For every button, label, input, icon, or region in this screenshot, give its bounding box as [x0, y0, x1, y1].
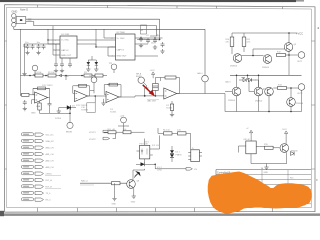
ground under C3 [36, 51, 40, 55]
junction dots bus [47, 39, 48, 40]
wire under U3A [40, 98, 77, 114]
capacitor C1 [26, 44, 30, 49]
svg-text:V+ OSC: V+ OSC [117, 38, 126, 40]
TP5 stem [113, 70, 115, 73]
diamond arrow node [59, 74, 62, 77]
connector J1 polarity dot [20, 19, 22, 21]
output connector O1 [298, 52, 305, 59]
zener DZ3 [291, 152, 295, 156]
bottom rail right section [205, 90, 302, 111]
capacitor C4 [42, 44, 46, 49]
connector J1 body [16, 17, 26, 24]
capacitor C6 under IC1 [60, 62, 64, 67]
transistor Q9 [280, 144, 289, 153]
resistor R15 horizontal [265, 146, 274, 149]
resistor R2 on distribution [48, 74, 56, 77]
regulator U8 body [246, 141, 256, 154]
Q8 emitter to ground [133, 188, 135, 194]
svg-text:U2 7660: U2 7660 [117, 32, 126, 34]
svg-text:BLWR: BLWR [136, 76, 142, 78]
ground under C1 [25, 51, 29, 55]
resistor row mid resistor RB [123, 131, 131, 134]
wire IC2 left pins [104, 29, 116, 56]
component box right of U3B [87, 103, 95, 113]
wire bus into IC area verticals [48, 26, 96, 55]
resistor R11 vertical [242, 37, 246, 47]
wire cap to main [155, 78, 160, 96]
resistor R5 under U3A [38, 103, 41, 110]
transistor Q5 [254, 87, 263, 96]
svg-text:GND: GND [31, 113, 36, 115]
zener diode DZ1 [170, 150, 174, 153]
svg-text:TL082: TL082 [166, 108, 173, 110]
diode D3 on wire [67, 105, 71, 110]
svg-text:CAP LV: CAP LV [117, 49, 125, 52]
title block column divider [262, 170, 288, 200]
ground left edge [22, 72, 26, 76]
U3A input resistor [22, 93, 30, 96]
ground under C11 [160, 49, 164, 53]
capacitor C12 under U3A [48, 102, 52, 107]
svg-text:4.7k: 4.7k [247, 42, 251, 44]
title block rows [216, 174, 311, 203]
svg-text:PMEG: PMEG [176, 155, 182, 157]
wire stub flags [113, 132, 116, 139]
input flag row 2 [22, 139, 34, 142]
input flag row 8 [22, 178, 34, 181]
power node circle +12V [121, 117, 127, 123]
op-amp U4B [164, 88, 177, 99]
svg-text:V+ OSC: V+ OSC [61, 40, 70, 42]
transistor Q3 [284, 43, 293, 52]
junction dot [69, 113, 71, 115]
input flag row 1 [22, 133, 34, 136]
svg-text:Rk 1.0k: Rk 1.0k [163, 130, 170, 132]
svg-text:VOUT1: VOUT1 [89, 132, 97, 134]
capacitor C9 right of IC2 [146, 38, 150, 43]
svg-text:Note D: Note D [20, 8, 28, 12]
border zone ticks top [38, 5, 283, 9]
svg-text:1u: 1u [158, 40, 160, 42]
svg-text:RA1 a1: RA1 a1 [81, 179, 89, 182]
sheet inner border [7, 7, 312, 208]
wire Q6 to R13 to O2 [273, 88, 298, 98]
svg-text:GND: GND [112, 204, 117, 206]
svg-text:AN3_CH: AN3_CH [46, 166, 54, 169]
input flag row 3 [22, 146, 34, 149]
base resistor Q8 [112, 182, 121, 185]
svg-text:10u: 10u [37, 42, 40, 44]
svg-text:Rev: Rev [290, 178, 294, 180]
U6 inner marks [141, 149, 147, 155]
orange highlighter blob [209, 172, 312, 213]
connector J1 pin circle 1 [12, 14, 16, 18]
svg-text:1.0k: 1.0k [123, 129, 127, 131]
svg-text:GND OUT: GND OUT [117, 56, 128, 58]
wire bus A top [26, 18, 160, 20]
capacitor C2 [31, 44, 35, 49]
wire IC2 right pins [135, 38, 163, 56]
svg-text:R2 10k: R2 10k [48, 72, 54, 74]
diode D2 with ground [95, 62, 99, 65]
svg-text:2N3904: 2N3904 [296, 103, 304, 105]
U4B feedback wire [161, 78, 180, 94]
resistor R4 on distribution [95, 74, 103, 77]
transistor Q1 [233, 54, 242, 63]
junction dot on main wire [144, 95, 146, 97]
svg-text:GAL 0: GAL 0 [197, 72, 203, 75]
zener diode DZ2 [170, 154, 174, 157]
junction dots distribution [29, 75, 31, 77]
svg-text:U1 7662: U1 7662 [61, 34, 70, 36]
wire power circle down [118, 123, 129, 132]
svg-text:4: 4 [55, 50, 56, 52]
svg-text:GND OUT: GND OUT [61, 55, 72, 57]
wires second stage [237, 75, 270, 111]
scan edge bottom band [0, 213, 320, 216]
capacitor C3 [37, 44, 41, 49]
svg-text:SDA_I2C: SDA_I2C [46, 140, 55, 143]
wires rail to resistors [232, 33, 244, 54]
svg-text:2N3906: 2N3906 [230, 66, 238, 68]
wire U3B output right [88, 96, 107, 103]
U8 pin stubs [239, 146, 260, 153]
flag +5V right [186, 168, 192, 171]
resistor R1 on distribution [35, 74, 43, 77]
svg-text:10u: 10u [25, 42, 28, 44]
svg-text:2: 2 [55, 40, 56, 42]
svg-text:1.0k: 1.0k [177, 130, 181, 132]
input flag row 11 [22, 198, 34, 201]
ground under C6 [60, 69, 64, 73]
svg-text:U8 LM: U8 LM [244, 139, 250, 141]
wire bus B [26, 22, 157, 26]
svg-text:10u: 10u [144, 39, 147, 41]
input flag row 5 [22, 159, 34, 162]
wire flag down to U8 [250, 133, 252, 141]
IC U2 charge pump body [116, 34, 136, 60]
svg-text:OUT1: OUT1 [297, 61, 303, 63]
wire bottom net [134, 164, 186, 178]
resistor R13 horizontal [278, 87, 287, 90]
svg-text:AN2_CH: AN2_CH [46, 160, 54, 163]
svg-text:+VCC: +VCC [150, 70, 156, 72]
border zone ticks right [311, 41, 315, 169]
svg-text:SCL_I2C: SCL_I2C [46, 135, 55, 137]
resistor R10 vertical [230, 37, 234, 47]
resistor under U4B [170, 104, 173, 110]
wire Q9 emitter down [251, 152, 287, 165]
svg-text:2N3904: 2N3904 [255, 101, 263, 103]
testpoint TP4 circle [93, 79, 95, 81]
wire U4A output [119, 96, 164, 97]
ground under C10 [153, 45, 157, 49]
connector J1 pin circle 3 [12, 23, 16, 27]
testpoint TP2 circle [91, 77, 97, 83]
wire bus C [14, 27, 205, 29]
U6 pin stubs [137, 139, 153, 163]
svg-text:RLY_A: RLY_A [46, 179, 53, 182]
wire TP2 down to U3B [90, 83, 94, 94]
title block outline [216, 170, 311, 209]
transistor Q7 [287, 98, 296, 107]
svg-text:2: 2 [112, 38, 113, 40]
svg-text:TLRMB: TLRMB [81, 110, 88, 112]
capacitor C8 right of IC2 [139, 37, 143, 42]
border zone ticks left [5, 41, 7, 169]
svg-text:+12V: +12V [120, 116, 125, 118]
diode D7 diagonal [135, 171, 140, 176]
input flag row 4 [22, 152, 34, 155]
U3A feedback resistor [38, 87, 46, 90]
wire U6 right up [153, 135, 160, 149]
wire vertical feed right section [204, 29, 206, 93]
svg-text:3: 3 [55, 44, 56, 46]
resistor R12 horizontal [277, 54, 286, 57]
border zone ticks bottom [38, 208, 273, 212]
TP1 stem and ground [34, 71, 36, 73]
U3A feedback wire [33, 88, 50, 97]
vertical feed to opamp area [21, 76, 67, 97]
svg-text:AN1_CH: AN1_CH [46, 153, 54, 156]
capacitor C13 box [153, 84, 159, 91]
scan edge top band [0, 0, 296, 2]
wire zener verticals [171, 146, 173, 162]
svg-text:BNOB: BNOB [66, 132, 73, 134]
IC U1 charge pump body [60, 36, 77, 58]
wire resistor row mid [104, 131, 145, 133]
svg-text:CAP LV: CAP LV [61, 49, 69, 52]
testpoint TP3 circle [67, 122, 73, 128]
small box right of IC2 [141, 25, 147, 34]
input flag row 10 [22, 191, 34, 194]
svg-text:GND: GND [131, 201, 136, 203]
resistor row right resistor RC [164, 132, 173, 135]
junction dots IC2 right [140, 37, 141, 38]
diode D6 horizontal [141, 162, 145, 166]
ground G10 [264, 165, 268, 169]
wire left column down [21, 29, 25, 75]
wire resistor row right [158, 128, 191, 150]
input flag row 7 [22, 172, 34, 175]
wire Q1 to Q2 [242, 49, 285, 56]
U4A feedback resistor [109, 83, 118, 86]
svg-text:RX_0: RX_0 [46, 200, 52, 202]
pulldown wire and ground G9 [114, 183, 116, 196]
svg-text:2N3904: 2N3904 [262, 67, 270, 69]
wire U4B output to right section [177, 93, 205, 95]
svg-text:GAL 0: GAL 0 [225, 81, 231, 84]
svg-text:U3A: U3A [36, 105, 41, 108]
diode D1 with ground [87, 62, 91, 65]
junction loop corner [159, 39, 161, 41]
ground under C5 [54, 69, 58, 73]
capacitor C7 mid [68, 62, 72, 67]
Q8 collector wire [133, 169, 145, 180]
capacitor C11 far right [161, 42, 165, 47]
capacitor C10 right of IC2 [153, 38, 157, 43]
U4B feedback resistor [165, 76, 176, 79]
ground G8 [132, 194, 136, 198]
capacitor C5 under IC1 [54, 62, 58, 67]
U4A feedback [104, 85, 121, 97]
svg-text:TL082: TL082 [110, 112, 117, 114]
zone letter dots outside right border [318, 27, 319, 29]
wire cap bus [24, 44, 60, 47]
flag +VCC above Q9 [285, 131, 288, 134]
flag +VCC mid [152, 72, 155, 75]
wire and ground under U4B [171, 101, 173, 113]
ground mid [57, 109, 61, 113]
transistor Q4 [232, 87, 241, 96]
flag +V right-mid [250, 130, 253, 133]
wire IC1 to IC2 row1 [77, 39, 116, 41]
connector CN2 circle [202, 75, 209, 82]
optoisolator U6 body [140, 145, 150, 159]
U3B feedback [73, 86, 90, 96]
svg-text:+VCC: +VCC [296, 32, 303, 36]
bottom distribution wire [21, 75, 108, 77]
base feed wires stage2 [225, 80, 254, 92]
base wire Q8 [80, 182, 127, 184]
svg-text:R1 10k: R1 10k [35, 72, 41, 74]
resistor row right resistor RD [178, 132, 187, 135]
U3B feedback resistor [79, 84, 87, 87]
second stage rail [230, 74, 302, 76]
svg-text:10u: 10u [151, 43, 154, 45]
svg-text:VOUT2: VOUT2 [89, 139, 97, 141]
testpoint TP1 circle [32, 65, 38, 71]
op-amp U3A [35, 92, 48, 103]
testpoint TP5 circle [111, 64, 117, 70]
transistor Q2 [263, 55, 272, 64]
wire IC1 left pins [48, 40, 60, 55]
input flag row 9 [22, 185, 34, 188]
transistor Q8 [127, 180, 136, 189]
wire IC1 bottom stubs [56, 44, 70, 62]
testpoint TP6 circle [138, 77, 144, 83]
wire diode tops [88, 56, 96, 60]
input flag row 6 [22, 165, 34, 168]
resistor R3 on distribution [84, 74, 92, 77]
right section top rail [232, 32, 297, 34]
capacitor under input [23, 100, 27, 105]
wire loop right vertical [137, 19, 160, 39]
connector module U7 body [191, 150, 200, 162]
op-amp U4A [106, 92, 119, 103]
svg-text:2V2LB: 2V2LB [55, 118, 62, 120]
wire input to U3A [21, 95, 35, 104]
wire R15 to Q9 [260, 147, 280, 148]
wires Q3 collector emitter [286, 33, 299, 75]
svg-text:GND: GND [12, 9, 18, 13]
diode pair D4 D5 [242, 78, 245, 83]
wire diode to TP3 [69, 108, 71, 123]
TP6 stem [144, 82, 149, 96]
TP2 stem [93, 76, 95, 77]
svg-text:2N3904: 2N3904 [228, 100, 236, 102]
ground right of U3B [103, 99, 105, 101]
svg-text:OUT2: OUT2 [297, 93, 303, 95]
op-amp U3B [75, 91, 88, 102]
resistor row mid resistor RA [108, 131, 116, 134]
red annotation arrow [143, 85, 155, 97]
transistor Q6 [265, 87, 274, 96]
wire IC1 to IC2 row2 [77, 44, 116, 47]
svg-text:AN0_CH: AN0_CH [46, 147, 54, 150]
U7 pin stubs [188, 153, 202, 160]
ground under input cap [23, 107, 27, 111]
svg-text:GND: GND [264, 172, 269, 174]
wire D6 [136, 163, 155, 165]
svg-text:R.5 1 B: R.5 1 B [152, 145, 159, 147]
wire loop second vertical [150, 26, 157, 36]
svg-text:47k: 47k [226, 42, 229, 44]
connector J1 pin circle 2 [12, 18, 16, 22]
svg-text:BCL_A1: BCL_A1 [108, 128, 116, 131]
svg-text:PVI 5030: PVI 5030 [140, 144, 149, 146]
output connector O2 [298, 84, 305, 91]
ground under C8 [139, 44, 143, 48]
svg-text:+VCC: +VCC [282, 129, 288, 131]
svg-text:NFLA: NFLA [136, 72, 142, 75]
